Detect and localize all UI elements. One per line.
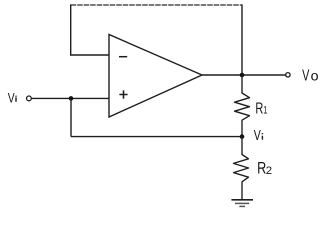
wire: non-inverting input horizontal bbox=[32, 97, 109, 99]
op-amp U1 triangle bbox=[109, 35, 202, 118]
ground bbox=[231, 200, 253, 207]
wire: left feedback vertical bbox=[70, 4, 72, 55]
resistor R1 bbox=[235, 75, 250, 137]
wire: bottom horizontal to R1-R2 junction bbox=[71, 136, 242, 138]
op-amp U1 inverting pin minus sign bbox=[119, 56, 127, 58]
node Vi input terminal bbox=[27, 96, 32, 101]
label Vi node bbox=[254, 126, 263, 143]
label R2 bbox=[257, 160, 272, 178]
label Vi input bbox=[8, 90, 16, 106]
label R1 bbox=[255, 99, 267, 116]
wire: right feedback vertical from top to output bbox=[241, 4, 243, 75]
wire: node A down vertical bbox=[70, 98, 72, 136]
node output junction dot bbox=[240, 73, 245, 78]
wire: inverting input horizontal bbox=[70, 54, 109, 56]
svg-text:2: 2 bbox=[266, 165, 272, 177]
wire: output horizontal bbox=[202, 74, 286, 76]
node A junction dot on input bbox=[69, 96, 74, 101]
svg-text:V: V bbox=[302, 66, 310, 84]
label Vo output bbox=[302, 66, 319, 84]
resistor R2 bbox=[234, 137, 249, 200]
node Vi junction dot between R1 and R2 bbox=[240, 134, 245, 139]
svg-text:o: o bbox=[311, 69, 319, 85]
svg-text:R: R bbox=[255, 99, 263, 116]
svg-text:1: 1 bbox=[263, 104, 267, 117]
svg-text:V: V bbox=[8, 90, 16, 106]
wire: top feedback horizontal bbox=[71, 4, 242, 6]
node Vo output terminal bbox=[286, 73, 290, 77]
svg-text:V: V bbox=[254, 126, 261, 143]
op-amp U1 non-inverting pin plus sign bbox=[119, 90, 127, 98]
